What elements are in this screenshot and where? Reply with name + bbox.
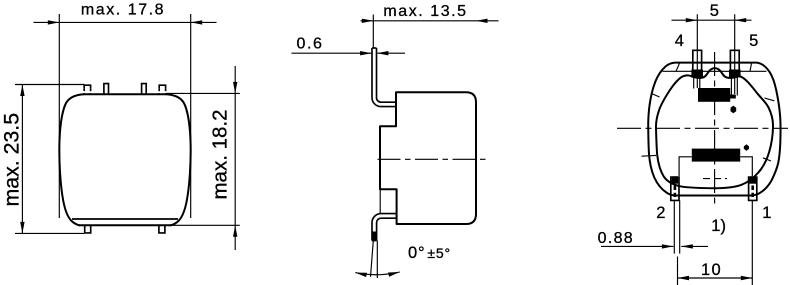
angle tolerance arc — [355, 272, 400, 275]
pin 4 outline (top view) — [693, 50, 702, 70]
mold tick mid-right-upper — [765, 98, 775, 101]
pin 2 center dashes — [674, 186, 677, 198]
dimension 5: right arrowhead — [735, 18, 747, 22]
mold tick upper-left — [676, 63, 680, 71]
dimension max. 13.5: left extension line — [372, 15, 374, 49]
dimension max. 13.5: dimension line — [361, 20, 499, 22]
svg-text:5: 5 — [749, 32, 758, 50]
tab pin 2 dashed lower part — [84, 88, 90, 94]
bottom lead cut end — [372, 240, 377, 242]
svg-text:max. 13.5: max. 13.5 — [383, 3, 467, 20]
mold tick mid-left-upper — [652, 94, 660, 98]
svg-text:max. 23.5: max. 23.5 — [0, 113, 24, 207]
bottom lead wire inner edge — [377, 218, 397, 240]
svg-text:1: 1 — [762, 204, 771, 222]
core circumference left arc — [656, 75, 715, 188]
pin 2 outline (bottom) — [671, 176, 679, 200]
mold tick mid-right-lower — [763, 158, 771, 161]
dimension max. 23.5: bottom extension line — [15, 232, 84, 234]
dimension max. 13.5: left arrowhead — [362, 19, 374, 23]
svg-text:0°±5°: 0°±5° — [408, 244, 451, 262]
winding slot lower (filled) — [692, 149, 740, 162]
dimension max. 18.2: top extension line — [166, 92, 240, 94]
pin 5 neck joint blob — [730, 95, 736, 99]
tab pin 2 (hidden, top far-left) solid cap — [84, 85, 90, 88]
pin 1 center dashes — [751, 186, 754, 198]
dimension max. 23.5: bottom arrowhead — [20, 222, 24, 234]
body outline front view: top edge — [84, 93, 167, 95]
angle arc right arrowhead — [388, 272, 400, 277]
dimension 10: right extension line — [751, 200, 753, 285]
dimension max. 18.2: top arrowhead (points down) — [233, 82, 237, 94]
pin 5 centerline — [734, 14, 736, 94]
dimension max. 17.8: extension lines — [59, 14, 190, 218]
body outline front view: left bulged side — [59, 94, 83, 225]
tab pin 1 (hidden, top far-right) solid cap — [159, 85, 165, 88]
pin 5 neck lines — [731, 77, 737, 95]
bottom lead wire outer edge — [372, 214, 397, 241]
pin 4 foot (filled) — [691, 70, 703, 78]
base seam line — [72, 218, 178, 220]
dimension max. 17.8: left arrowhead — [48, 20, 60, 24]
top lead wire outer edge — [372, 48, 397, 107]
tab pin 5 (top, solid) — [142, 84, 147, 94]
pin 4 neck lines — [694, 77, 700, 88]
mold tick upper-right — [750, 63, 752, 71]
hidden edge dashed (bottom inside) — [703, 178, 727, 180]
body outline front view: bottom base edge — [79, 224, 171, 226]
dimension max. 18.2: dimension line — [234, 66, 236, 250]
dimension 5: left arrowhead — [686, 18, 698, 22]
dimension max. 18.2: bottom arrowhead (points up) — [233, 225, 237, 237]
dimension 0.88: right dimension line with arrowhead — [681, 245, 708, 247]
dimension 0.6: right dimension line with arrowhead — [377, 52, 405, 54]
angle arc left arrowhead — [355, 273, 367, 278]
dimension 10: dimension line — [678, 277, 753, 279]
shell rim line — [663, 70, 767, 72]
horizontal centerline top view — [617, 127, 788, 129]
core circumference right arc — [715, 76, 774, 188]
dimension 10: left arrowhead (points left) — [678, 276, 690, 280]
body outline side view — [380, 92, 476, 224]
svg-text:max. 17.8: max. 17.8 — [81, 2, 165, 19]
mounting foot left — [85, 225, 91, 233]
flange lower edge line — [379, 189, 381, 213]
svg-text:1): 1) — [711, 217, 726, 235]
bobbin top wavy line with center hump — [692, 68, 741, 78]
tab pin 4 (top, solid) — [104, 84, 109, 94]
pin 4 centerline — [696, 14, 698, 88]
outer shell outline top view — [648, 63, 780, 196]
pin 1 foot fill — [749, 176, 756, 184]
svg-text:2: 2 — [656, 204, 665, 222]
dimension 0.6: left dimension line with arrowhead — [292, 52, 372, 54]
winding connection staple left — [679, 157, 692, 176]
lead 5-degree tilt line — [371, 241, 374, 277]
winding slot upper (filled) — [698, 88, 730, 102]
pin 5 foot (filled) — [729, 70, 741, 78]
mold tick mid-left-lower — [642, 154, 657, 157]
svg-text:10: 10 — [701, 261, 722, 279]
body outline front view: right bulged side — [167, 94, 191, 225]
top lead wire inner edge — [377, 48, 397, 102]
dimension max. 23.5: top arrowhead — [20, 85, 24, 97]
dimension max. 23.5: top extension line — [15, 84, 85, 86]
dimension max. 23.5: dimension line — [21, 85, 23, 234]
horizontal centerline side view — [378, 158, 487, 160]
dimension max. 17.8: dimension line — [34, 21, 217, 23]
dimension 0.88: left dimension line with arrowhead — [601, 245, 673, 247]
winding connection staple right — [740, 157, 752, 176]
dimension 10: right arrowhead (points right) — [741, 276, 753, 280]
svg-text:max. 18.2: max. 18.2 — [209, 109, 232, 199]
pin 5 outline (top view) — [730, 50, 739, 70]
dimension 5 (top): dimension line — [672, 19, 752, 21]
svg-text:0.6: 0.6 — [297, 36, 324, 53]
mounting foot right — [159, 225, 165, 233]
dimension max. 18.2: bottom extension line — [171, 224, 240, 226]
dimension 0.88: pin edge extension lines — [674, 200, 679, 253]
polarity dot upper — [731, 106, 737, 114]
lead 0-degree reference line — [376, 241, 378, 278]
svg-text:4: 4 — [675, 32, 684, 50]
pin 1 outline (bottom) — [749, 176, 757, 200]
dimension max. 13.5: right arrowhead — [476, 19, 488, 23]
bottom lead stub dark fill — [372, 232, 376, 241]
dimension 10: left extension line — [677, 257, 679, 285]
dimension max. 17.8: right arrowhead — [191, 20, 203, 24]
top lead cut end — [372, 47, 377, 49]
svg-text:5: 5 — [710, 2, 719, 20]
svg-text:0.88: 0.88 — [598, 230, 634, 247]
polarity dot lower — [744, 144, 749, 151]
pin 2 foot fill — [672, 176, 679, 184]
tab pin 1 dashed lower part — [159, 88, 165, 94]
vertical centerline top view — [714, 52, 716, 208]
